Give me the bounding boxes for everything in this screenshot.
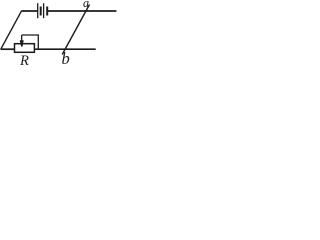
rheostat slider arrowhead [20, 40, 24, 46]
rheostat R box [15, 44, 35, 53]
svg-text:b: b [62, 49, 70, 65]
wire left diagonal [1, 11, 22, 49]
wire top-left segment [21, 10, 38, 12]
wire bottom-right segment [35, 48, 96, 50]
wire bottom-left segment [1, 48, 15, 50]
wire slider L-link [22, 35, 39, 49]
rheostat slider stem [21, 35, 23, 41]
battery E cell 1 plate short [40, 7, 42, 16]
svg-text:R: R [19, 53, 29, 65]
battery E cell 2 plate long [43, 3, 45, 18]
wire top-right segment [48, 10, 117, 12]
rod ab [62, 5, 89, 55]
svg-text:a: a [83, 0, 89, 10]
battery E cell 1 plate long [37, 3, 39, 18]
battery E cell 2 plate short [46, 7, 48, 16]
